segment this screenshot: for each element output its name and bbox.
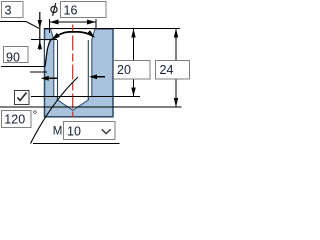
csink depth lower arrow bbox=[38, 41, 42, 50]
svg-text:90: 90 bbox=[6, 51, 20, 65]
csink depth leader horizontal bbox=[0, 21, 26, 23]
csink bottom extension line bbox=[31, 39, 57, 41]
value box 90 bbox=[4, 47, 29, 63]
depth 24 top arrowhead bbox=[174, 29, 178, 38]
dia dim left extension line bbox=[49, 19, 51, 33]
checkbox bbox=[15, 91, 30, 105]
depth 24 bottom arrowhead bbox=[174, 98, 178, 107]
thread dia dim right tail bbox=[97, 76, 106, 78]
bore wall line right bbox=[87, 40, 89, 100]
depth 20 dim line lower bbox=[133, 79, 135, 97]
drill angle leader bbox=[31, 77, 79, 144]
hole cavity (countersink + thread + bore + drill cone) bbox=[51, 29, 96, 111]
value box 24 bbox=[156, 61, 190, 80]
bottom rule line bbox=[33, 143, 120, 145]
checkbox check mark bbox=[18, 93, 27, 101]
top surface line and right extension bbox=[44, 28, 180, 30]
svg-text:M: M bbox=[53, 126, 63, 138]
csink depth leader diagonal bbox=[26, 22, 39, 29]
svg-text:16: 16 bbox=[64, 4, 78, 18]
depth 24 reference line bbox=[0, 106, 182, 108]
svg-text:120: 120 bbox=[4, 113, 25, 127]
value box 20 bbox=[114, 61, 151, 80]
csink angle arc left arrowhead bbox=[51, 33, 60, 41]
thread dia dim right arrowhead bbox=[89, 74, 97, 79]
depth 20 top arrowhead bbox=[131, 29, 135, 38]
combo chevron bbox=[102, 129, 111, 133]
dia dim right arrowhead bbox=[87, 20, 96, 25]
thread dia dim left arrowhead bbox=[41, 76, 49, 81]
svg-text:24: 24 bbox=[160, 63, 174, 77]
svg-text:°: ° bbox=[33, 108, 38, 122]
csink angle arc bbox=[53, 32, 94, 40]
csink angle leader curve bbox=[45, 39, 52, 67]
depth 24 dim line lower bbox=[175, 79, 177, 107]
svg-text:20: 20 bbox=[117, 63, 131, 77]
value box 120 bbox=[2, 111, 32, 128]
csink angle leader horizontal bbox=[1, 66, 45, 68]
thread size combo box bbox=[64, 122, 116, 140]
csink angle arc right arrowhead bbox=[87, 30, 95, 38]
svg-text:10: 10 bbox=[67, 125, 81, 139]
white pocket left of angle leader curve bbox=[45, 41, 51, 67]
csink depth upper arrow bbox=[39, 12, 41, 50]
dia dim left arrowhead bbox=[50, 20, 59, 25]
value box 16 bbox=[61, 2, 107, 18]
stray leader stub bbox=[30, 71, 47, 73]
red centerline bbox=[72, 25, 74, 118]
bore wall line left bbox=[57, 40, 59, 100]
dia symbol bbox=[51, 6, 57, 12]
value box 3 bbox=[2, 2, 24, 18]
depth 20 dim line upper bbox=[133, 29, 135, 60]
thread dia dim left line bbox=[48, 77, 57, 79]
depth 20 reference line bbox=[31, 96, 140, 98]
svg-text:3: 3 bbox=[5, 4, 12, 18]
dia dim right extension line bbox=[95, 19, 97, 30]
depth 24 dim line upper bbox=[175, 29, 177, 60]
dia dimension line bbox=[50, 21, 96, 23]
part cross-section block bbox=[45, 29, 114, 117]
depth 20 bottom arrowhead bbox=[131, 88, 135, 97]
